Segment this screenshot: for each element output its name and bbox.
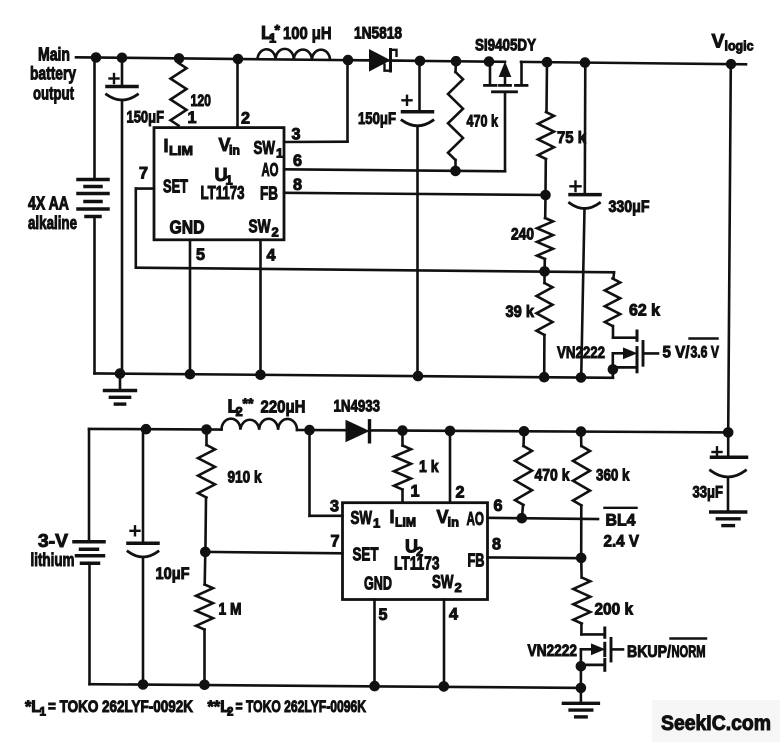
junction lower rail at pin4 bbox=[439, 681, 450, 692]
svg-text:SW: SW bbox=[351, 508, 373, 528]
junction ground rail at pin4 bbox=[255, 370, 266, 381]
pin 6 label U2 bbox=[494, 497, 503, 515]
junction ground rail at C2 bbox=[413, 371, 424, 382]
junction R1 top bbox=[174, 53, 185, 64]
wire lower supply rail (L2 to D2) bbox=[297, 429, 346, 432]
label R7 910 k bbox=[228, 469, 263, 487]
svg-text:SW: SW bbox=[249, 217, 271, 237]
label SI9405DY bbox=[475, 37, 536, 55]
svg-text:BKUP/: BKUP/ bbox=[627, 643, 671, 661]
label U1 GND bbox=[170, 218, 205, 238]
junction Q3 source/body tie bbox=[576, 661, 587, 672]
svg-text:75 k: 75 k bbox=[557, 129, 587, 147]
label R8 1 M bbox=[219, 601, 242, 619]
svg-text:4X AA: 4X AA bbox=[28, 194, 69, 214]
junction lower rail at C4 bbox=[138, 679, 149, 690]
svg-text:3.6 V: 3.6 V bbox=[691, 343, 720, 361]
wire lower ground rail bbox=[90, 684, 581, 688]
svg-text:7: 7 bbox=[139, 165, 148, 183]
pin 1 label U1 bbox=[188, 109, 197, 127]
label U1 SW2 bbox=[249, 217, 279, 240]
transistor Q2 VN2222 n-MOSFET bbox=[613, 331, 658, 378]
svg-text:330μF: 330μF bbox=[609, 198, 650, 216]
junction C1 top bbox=[117, 53, 128, 64]
ground symbol top circuit bbox=[105, 374, 136, 405]
inductor L2 220uH bbox=[222, 419, 298, 430]
label U1 ILIM bbox=[164, 136, 194, 158]
svg-text:GND: GND bbox=[170, 218, 205, 238]
capacitor C4 10uF bbox=[128, 429, 158, 684]
svg-text:I: I bbox=[390, 507, 395, 527]
svg-text:240: 240 bbox=[511, 226, 534, 244]
junction R7 910k top bbox=[201, 424, 212, 435]
svg-text:battery: battery bbox=[30, 63, 77, 84]
label U1 refdes bbox=[215, 165, 233, 188]
svg-text:1: 1 bbox=[40, 707, 47, 719]
svg-text:= TOKO 262LYF-0092K: = TOKO 262LYF-0092K bbox=[48, 698, 193, 716]
junction R3 75k top bbox=[542, 57, 553, 68]
junction Q2 source/body tie bbox=[608, 364, 619, 375]
watermark SeekIC.com bbox=[652, 700, 780, 742]
svg-text:BL4: BL4 bbox=[606, 512, 637, 530]
svg-text:150μF: 150μF bbox=[127, 109, 165, 127]
junction lower rail at pin5 bbox=[369, 681, 380, 692]
svg-text:100 μH: 100 μH bbox=[283, 23, 332, 43]
battery B2 3-V lithium bbox=[74, 429, 104, 684]
svg-text:SW: SW bbox=[432, 572, 454, 592]
wire U1 pin4 SW2 down bbox=[259, 240, 262, 375]
wire top-circuit ground rail bbox=[95, 373, 614, 377]
svg-text:4: 4 bbox=[449, 606, 458, 624]
capacitor C1 150uF bbox=[107, 58, 138, 374]
label U2 LT1173 bbox=[394, 554, 440, 574]
wire U1 pin3 to L1 output bbox=[284, 60, 348, 142]
wire U2 pin6 AO net bbox=[488, 518, 599, 519]
wire main top rail (SI9405DY drain to V_logic) bbox=[521, 62, 746, 64]
svg-text:lithium: lithium bbox=[31, 550, 75, 570]
junction R11 bottom / R12 top on FB net bbox=[576, 553, 587, 564]
label L2** 220uH bbox=[228, 395, 306, 419]
svg-text:6: 6 bbox=[494, 497, 503, 515]
svg-text:2: 2 bbox=[241, 110, 250, 128]
svg-text:VN2222: VN2222 bbox=[528, 642, 578, 660]
svg-text:3: 3 bbox=[330, 498, 339, 516]
junction ground rail at pin5 bbox=[185, 369, 196, 380]
diode D2 1N4933 bbox=[346, 421, 370, 442]
svg-text:4: 4 bbox=[267, 247, 276, 265]
label C2 150uF bbox=[358, 110, 396, 128]
pin 3 label U1 bbox=[292, 126, 301, 144]
svg-text:output: output bbox=[33, 83, 74, 104]
wire lower supply rail (D2 to right edge) bbox=[370, 430, 729, 432]
svg-text:in: in bbox=[229, 143, 240, 158]
svg-text:SW: SW bbox=[254, 138, 276, 158]
label U2 Vin bbox=[437, 507, 460, 530]
wire SET net long run bbox=[136, 268, 614, 273]
svg-text:1: 1 bbox=[373, 516, 380, 531]
wire U2 pin5 GND down bbox=[373, 600, 376, 687]
svg-text:7: 7 bbox=[331, 533, 340, 551]
junction R7/R8/SET node bbox=[200, 547, 211, 558]
svg-text:2: 2 bbox=[456, 484, 465, 502]
wire U1 pin7 SET elbow bbox=[136, 189, 154, 268]
junction Q1 source bbox=[484, 56, 495, 67]
resistor R9 1k bbox=[394, 431, 411, 503]
svg-text:LT1173: LT1173 bbox=[394, 554, 440, 574]
label C5 33uF bbox=[693, 484, 724, 502]
wire U2 pin7 SET run bbox=[205, 552, 342, 553]
svg-text:6: 6 bbox=[293, 152, 302, 170]
label R10 470 k bbox=[535, 467, 571, 485]
svg-text:39 k: 39 k bbox=[506, 303, 535, 321]
svg-text:SeekIC.com: SeekIC.com bbox=[661, 712, 771, 735]
node V_logic terminal bbox=[712, 31, 754, 70]
svg-text:5: 5 bbox=[379, 606, 388, 624]
label C1 150uF bbox=[127, 109, 165, 127]
svg-text:**: ** bbox=[243, 395, 254, 411]
label U2 refdes bbox=[405, 537, 423, 560]
junction U1 pin2 Vin bbox=[233, 54, 244, 65]
svg-text:910 k: 910 k bbox=[228, 469, 263, 487]
label C3 330uF bbox=[609, 198, 650, 216]
op-amp U2 LT1173 box bbox=[343, 503, 488, 600]
svg-text:120: 120 bbox=[191, 92, 212, 110]
resistor R4 240 bbox=[537, 195, 553, 271]
svg-text:VN2222: VN2222 bbox=[557, 344, 605, 362]
junction R4 bottom / R5 top on SET net bbox=[539, 266, 550, 277]
resistor R8 1M bbox=[196, 552, 213, 685]
label U2 SET bbox=[353, 545, 379, 565]
pin 4 label U1 bbox=[267, 247, 276, 265]
label footnote L1 L2 TOKO bbox=[25, 698, 366, 719]
label U2 FB bbox=[468, 551, 485, 571]
pin 8 label U2 bbox=[492, 536, 501, 554]
svg-text:V: V bbox=[712, 31, 725, 53]
junction ground rail at C1 bbox=[115, 368, 126, 379]
transistor Q3 VN2222 n-MOSFET bbox=[581, 628, 623, 688]
svg-text:2: 2 bbox=[227, 707, 233, 719]
pin 4 label U2 bbox=[449, 606, 458, 624]
svg-text:LIM: LIM bbox=[395, 515, 416, 530]
resistor R10 470k bbox=[515, 431, 532, 518]
svg-text:NORM: NORM bbox=[672, 643, 706, 661]
junction R10 470k top bbox=[519, 426, 530, 437]
inductor L1 100uH bbox=[258, 49, 331, 60]
label C4 10uF bbox=[156, 565, 190, 583]
pin 2 label U1 bbox=[241, 110, 250, 128]
svg-text:200 k: 200 k bbox=[595, 601, 634, 619]
label U2 AO bbox=[467, 509, 485, 529]
wire U1 pin2 to rail bbox=[236, 59, 239, 128]
svg-text:3-V: 3-V bbox=[38, 531, 68, 551]
svg-text:in: in bbox=[448, 515, 460, 530]
junction lower rail at Q3 ground bbox=[576, 683, 587, 694]
svg-text:Main: Main bbox=[38, 44, 70, 65]
wire lower supply rail (battery to L2) bbox=[89, 428, 222, 431]
junction ground rail at C3 bbox=[576, 372, 587, 383]
svg-text:33μF: 33μF bbox=[693, 484, 724, 502]
label R11 360 k bbox=[596, 467, 630, 485]
svg-text:*: * bbox=[275, 22, 281, 38]
resistor R5 39k bbox=[537, 271, 553, 377]
resistor R2 470k bbox=[448, 61, 463, 171]
label U2 GND bbox=[364, 574, 392, 594]
label 4X AA alkaline bbox=[28, 194, 77, 234]
svg-text:5 V/: 5 V/ bbox=[663, 343, 690, 361]
svg-text:AO: AO bbox=[467, 509, 485, 529]
svg-text:SI9405DY: SI9405DY bbox=[475, 37, 536, 55]
svg-text:1 M: 1 M bbox=[219, 601, 242, 619]
pin 8 label U1 bbox=[293, 176, 302, 194]
svg-text:AO: AO bbox=[262, 160, 279, 180]
junction R2 470k top bbox=[451, 56, 462, 67]
svg-text:360 k: 360 k bbox=[596, 467, 630, 485]
pin 3 label U2 bbox=[330, 498, 339, 516]
transistor Q1 SI9405DY p-MOSFET bbox=[485, 62, 528, 172]
svg-text:SET: SET bbox=[163, 177, 188, 197]
capacitor C2 150uF bbox=[402, 61, 433, 376]
label 1N4933 bbox=[334, 398, 381, 416]
label U2 SW2 bbox=[432, 572, 462, 595]
svg-text:2: 2 bbox=[455, 580, 462, 595]
svg-text:8: 8 bbox=[293, 176, 302, 194]
capacitor C5 33uF bbox=[711, 432, 747, 511]
svg-text:LIM: LIM bbox=[169, 143, 193, 158]
svg-text:3: 3 bbox=[292, 126, 301, 144]
resistor R6 62k bbox=[605, 272, 620, 337]
svg-text:alkaline: alkaline bbox=[28, 213, 77, 233]
wire U1 pin6 AO to Q1 gate bbox=[284, 169, 505, 171]
label U1 FB bbox=[260, 184, 278, 204]
junction C4 top bbox=[141, 424, 152, 435]
svg-text:FB: FB bbox=[260, 184, 278, 204]
wire U2 pin2 to rail bbox=[449, 431, 452, 503]
pin 5 label U1 bbox=[196, 246, 205, 264]
svg-text:8: 8 bbox=[492, 536, 501, 554]
label R2 470 k bbox=[467, 113, 499, 131]
svg-text:470 k: 470 k bbox=[467, 113, 499, 131]
pin 6 label U1 bbox=[293, 152, 302, 170]
pin 2 label U2 bbox=[456, 484, 465, 502]
junction lower rail at R8 bbox=[199, 680, 210, 691]
resistor R11 360k bbox=[573, 432, 590, 558]
wire main top rail (battery output to SI9405DY source) bbox=[76, 57, 505, 62]
resistor R12 200k bbox=[573, 558, 590, 635]
label U1 Vin bbox=[219, 135, 241, 158]
wire U2 pin3 riser bbox=[310, 430, 343, 516]
label U1 AO bbox=[262, 160, 279, 180]
wire V_logic vertical to lower rail bbox=[728, 64, 731, 432]
label U2 SW1 bbox=[351, 508, 381, 531]
junction R11 360k top bbox=[576, 426, 587, 437]
svg-text:150μF: 150μF bbox=[358, 110, 396, 128]
junction L1 out / pin3 / D1 anode bbox=[343, 55, 354, 66]
svg-text:= TOKO 262LYF-0096K: = TOKO 262LYF-0096K bbox=[236, 698, 367, 716]
pin 5 label U2 bbox=[379, 606, 388, 624]
junction C2 top bbox=[415, 56, 426, 67]
label R9 1 k bbox=[419, 458, 439, 476]
ground symbol lower circuit bbox=[563, 688, 598, 717]
svg-text:62 k: 62 k bbox=[629, 302, 661, 320]
label Q3 VN2222 bbox=[528, 642, 578, 660]
ground symbol at C5 bbox=[711, 512, 746, 526]
junction R10 bottom on AO net bbox=[517, 513, 528, 524]
label U1 SET bbox=[163, 177, 188, 197]
svg-text:220μH: 220μH bbox=[261, 397, 306, 417]
svg-text:5: 5 bbox=[196, 246, 205, 264]
junction 33uF / V_logic corner bbox=[723, 427, 734, 438]
node BL4 2.4 V label bbox=[604, 508, 640, 551]
svg-text:1 k: 1 k bbox=[419, 458, 439, 476]
junction C3 330uF top bbox=[580, 57, 591, 68]
svg-text:logic: logic bbox=[725, 39, 754, 54]
node BKUP/NORM output label bbox=[627, 639, 706, 662]
node 5 V / 3.6-V output label bbox=[663, 339, 720, 362]
svg-text:LT1173: LT1173 bbox=[201, 183, 245, 203]
label U1 SW1 bbox=[254, 138, 284, 161]
junction U2 pin2 Vin bbox=[445, 426, 456, 437]
svg-text:1: 1 bbox=[411, 483, 420, 501]
svg-text:I: I bbox=[164, 136, 169, 156]
op-amp U1 LT1173 box bbox=[154, 128, 284, 240]
capacitor C3 330uF bbox=[570, 63, 601, 378]
svg-text:1: 1 bbox=[188, 109, 197, 127]
label R5 39 k bbox=[506, 303, 535, 321]
node: Main battery output label bbox=[30, 44, 77, 104]
svg-text:SET: SET bbox=[353, 545, 379, 565]
wire U1 pin8 FB bbox=[284, 193, 546, 195]
svg-text:GND: GND bbox=[364, 574, 392, 594]
label 1N5818 bbox=[354, 25, 402, 43]
label R4 240 bbox=[511, 226, 534, 244]
svg-text:470 k: 470 k bbox=[535, 467, 571, 485]
pin 7 label U1 bbox=[139, 165, 148, 183]
junction battery top bbox=[91, 52, 102, 63]
wire U2 pin8 FB net bbox=[488, 556, 582, 559]
label U1 LT1173 bbox=[201, 183, 245, 203]
junction R2 bottom on AO wire bbox=[450, 166, 461, 177]
svg-text:2.4 V: 2.4 V bbox=[604, 533, 640, 551]
junction ground rail at R5 bbox=[539, 372, 550, 383]
svg-text:1: 1 bbox=[276, 146, 283, 161]
label R12 200 k bbox=[595, 601, 634, 619]
pin 7 label U2 bbox=[331, 533, 340, 551]
svg-text:1N5818: 1N5818 bbox=[354, 25, 402, 43]
resistor R1 120 bbox=[171, 63, 212, 126]
label 3-V lithium bbox=[31, 531, 75, 570]
wire U1 pin5 GND down bbox=[189, 240, 192, 374]
label U2 ILIM bbox=[390, 507, 417, 530]
battery B1 4X AA alkaline bbox=[78, 58, 108, 374]
junction R9 1k top bbox=[397, 425, 408, 436]
label R3 75 k bbox=[557, 129, 587, 147]
pin 1 label U2 bbox=[411, 483, 420, 501]
junction R3 bottom / R4 top on FB wire bbox=[540, 190, 551, 201]
label L1* 100 uH bbox=[261, 22, 332, 46]
label R6 62 k bbox=[629, 302, 661, 320]
diode D1 1N5818 bbox=[348, 50, 420, 72]
label Q2 VN2222 bbox=[557, 344, 605, 362]
wire U2 pin4 SW2 down bbox=[443, 600, 446, 687]
svg-text:1N4933: 1N4933 bbox=[334, 398, 381, 416]
resistor R3 75k bbox=[538, 62, 554, 195]
svg-text:10μF: 10μF bbox=[156, 565, 190, 583]
junction L2 out / pin3 riser bbox=[304, 425, 315, 436]
resistor R7 910k bbox=[198, 430, 215, 552]
svg-text:FB: FB bbox=[468, 551, 485, 571]
svg-text:2: 2 bbox=[272, 225, 279, 240]
